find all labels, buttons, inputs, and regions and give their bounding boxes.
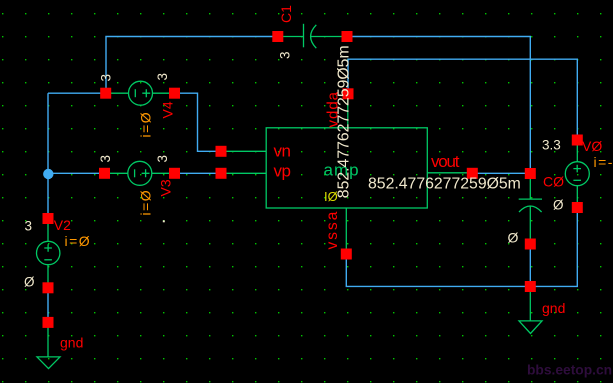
svg-text:i=Ø: i=Ø [138, 111, 154, 138]
voltage source V3 symbol [110, 161, 169, 185]
svg-text:Ø: Ø [508, 230, 519, 246]
pin square: C0 bottom [525, 239, 536, 250]
pin square: V4 left [100, 88, 111, 99]
wire: node to V3 left pin [48, 172, 101, 174]
svg-text:3: 3 [155, 73, 170, 81]
op-amp U: amp symbol box [266, 128, 427, 208]
pin square: gnd left [43, 317, 54, 328]
pin square: vp [216, 168, 227, 179]
pin vdda stub [347, 99, 349, 128]
voltage source V4 symbol [111, 81, 170, 105]
svg-text:3: 3 [99, 74, 114, 82]
pin square: vdda [343, 88, 354, 99]
wire: V4 left pin to left column [48, 92, 106, 94]
pin vout stub [427, 172, 470, 174]
svg-text:Ø: Ø [24, 274, 35, 289]
svg-text:gnd: gnd [60, 334, 83, 350]
pin square: V2 minus [43, 282, 54, 293]
pin square: vout [467, 168, 478, 179]
svg-text:V4: V4 [160, 101, 176, 118]
wire: vssa pin down and across to bottom junction [346, 254, 530, 286]
svg-text:3: 3 [98, 155, 113, 163]
svg-text:3: 3 [25, 218, 33, 233]
stray dot artifact [163, 220, 165, 222]
svg-text:852.4776277259Ø5m: 852.4776277259Ø5m [368, 176, 521, 193]
pin vp stub [227, 172, 267, 174]
pin vn stub [227, 150, 267, 152]
wire: V2 minus pin to gnd pin [47, 290, 49, 320]
svg-text:vout: vout [431, 152, 460, 171]
svg-text:CØ: CØ [543, 174, 564, 190]
wire: left column vertical from V4 row through node to V2 plus pin [47, 93, 49, 218]
svg-text:i=Ø: i=Ø [138, 189, 154, 216]
svg-text:3: 3 [278, 51, 293, 59]
pin square: V3 right [169, 168, 180, 179]
svg-text:V2: V2 [54, 217, 71, 233]
pin square: V4 right [169, 88, 180, 99]
voltage source V0 symbol [565, 146, 589, 203]
svg-text:bbs.eetop.cn: bbs.eetop.cn [527, 363, 612, 378]
svg-text:i=Ø: i=Ø [65, 233, 92, 249]
capacitor C0 symbol [519, 179, 542, 239]
wire: bottom junction up to C0 bottom pin [529, 244, 531, 286]
pin square: V3 left [99, 168, 110, 179]
voltage source V2 symbol [37, 224, 60, 284]
wire: C1 right pin to top right corner down to C0 top [347, 37, 530, 174]
pin vssa stub [345, 208, 347, 249]
pin square: C0 top [525, 168, 536, 179]
svg-text:3: 3 [155, 155, 170, 163]
svg-text:vp: vp [274, 162, 291, 181]
svg-text:VØ: VØ [582, 138, 602, 154]
svg-text:C1: C1 [278, 5, 294, 23]
capacitor C1 symbol [283, 24, 342, 48]
svg-text:3.3: 3.3 [542, 137, 561, 152]
pin square: bottom junction [525, 281, 536, 292]
svg-text:vssa: vssa [324, 210, 341, 250]
svg-text:gnd: gnd [542, 300, 565, 316]
svg-text:Ø: Ø [553, 198, 564, 213]
pin square: vssa [341, 249, 352, 260]
wire: V3 right pin to vp pin [178, 172, 217, 174]
svg-text:852.4776277259Ø5m: 852.4776277259Ø5m [335, 45, 352, 198]
wire: C1 left pin to corner down to V4 left pin [106, 37, 278, 94]
ground symbol left [37, 327, 60, 369]
node A: solder dot junction on left column [43, 169, 53, 179]
wire: bottom junction across and up to V0 minus pin [530, 208, 577, 287]
wire: V4 right pin to vn pin [178, 93, 217, 151]
pin square: C1 left [272, 31, 283, 42]
wire: vout pin to C0 top pin [475, 172, 530, 174]
pin square: V2 plus [43, 213, 54, 224]
ground symbol right [519, 292, 542, 334]
svg-text:vn: vn [274, 142, 291, 161]
pin square: V0 plus [572, 135, 583, 146]
wire: vdda pin up and across to V0 plus pin [348, 59, 577, 140]
svg-text:i=-: i=- [594, 154, 613, 170]
pin square: V0 minus [572, 202, 583, 213]
pin square: C1 right [342, 31, 353, 42]
pin square: vn [216, 146, 227, 157]
svg-text:V3: V3 [158, 179, 174, 196]
